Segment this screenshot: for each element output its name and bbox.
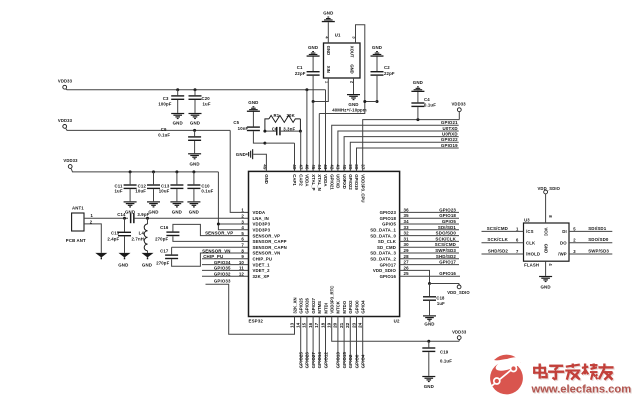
pin 20 stub (337, 317, 339, 362)
pin 17 stub (318, 317, 320, 362)
svg-text:C1: C1 (297, 65, 303, 70)
pin 2 of ANT1 (84, 219, 101, 253)
svg-text:0.1uF: 0.1uF (440, 359, 452, 364)
svg-text:C17: C17 (160, 249, 169, 254)
node rail3-C10 (192, 170, 195, 173)
svg-text:36: 36 (404, 207, 410, 212)
ground under C13 (170, 201, 183, 214)
svg-text:U0TXD: U0TXD (336, 174, 341, 188)
svg-text:GPIO2: GPIO2 (348, 354, 353, 368)
node rail2-C9 (193, 129, 196, 132)
svg-text:C4: C4 (424, 97, 430, 102)
svg-text:SCK/CLK: SCK/CLK (487, 237, 508, 242)
ESP32 left pin names (253, 210, 287, 279)
net label GPIO18 (ESP32 right) (400, 213, 459, 218)
capacitor C11 1uF (114, 172, 136, 201)
svg-text:22pF: 22pF (384, 71, 395, 76)
svg-text:14: 14 (296, 322, 301, 328)
label ESP32 (249, 318, 264, 323)
node rail3-C11 (129, 170, 132, 173)
capacitor C3 100pF (158, 90, 184, 113)
ground under U3 (539, 276, 552, 290)
svg-text:MTDO: MTDO (342, 300, 347, 313)
flash chip U3 body (524, 217, 570, 267)
svg-text:PCB ANT: PCB ANT (66, 238, 86, 243)
svg-text:MTMS: MTMS (317, 301, 322, 314)
svg-text:SCS/CMD: SCS/CMD (435, 242, 456, 247)
svg-text:GPIO18: GPIO18 (380, 216, 397, 221)
label U2 (394, 318, 400, 323)
svg-text:GPIO17: GPIO17 (380, 262, 397, 267)
svg-text:3.9pF: 3.9pF (137, 212, 149, 217)
svg-text:270pF: 270pF (155, 237, 168, 242)
svg-text:GND: GND (172, 209, 182, 214)
svg-text:12: 12 (239, 272, 245, 277)
pin 5 of U3 SDI/SD1 (569, 226, 612, 232)
net label GPIO35 (202, 266, 249, 271)
svg-text:GPIO0: GPIO0 (354, 354, 359, 368)
svg-text:GPIO34: GPIO34 (214, 260, 231, 265)
svg-text:VDDA: VDDA (305, 174, 310, 186)
svg-text:GND: GND (264, 174, 269, 184)
svg-text:SD_CLK: SD_CLK (378, 239, 397, 244)
svg-text:C6: C6 (272, 126, 278, 131)
capacitor C15 2.4pF (107, 218, 131, 253)
svg-text:2.7nH: 2.7nH (132, 236, 144, 241)
svg-text:GND: GND (349, 64, 354, 73)
net label SWP/SD3 (ESP32 right) (400, 248, 459, 253)
svg-text:GND: GND (190, 121, 200, 126)
svg-text:SD_DATA_0: SD_DATA_0 (370, 233, 396, 238)
svg-text:XIN: XIN (326, 66, 331, 73)
svg-text:10: 10 (239, 260, 245, 265)
wire rail3 drop to pins 3 and 4 (217, 172, 249, 230)
node rail3-C13 (175, 170, 178, 173)
ground above C1 (307, 45, 320, 57)
svg-text:GPIO2: GPIO2 (348, 300, 353, 314)
svg-text:GPIO25: GPIO25 (299, 297, 304, 313)
net label GPIO21 (332, 120, 459, 171)
pin 7 of U3 SHD/SD2 (482, 249, 524, 255)
svg-text:VDET_1: VDET_1 (253, 262, 271, 267)
wire node B to pin 47 (299, 131, 301, 171)
svg-text:ESP32: ESP32 (249, 318, 264, 323)
svg-text:5: 5 (241, 231, 244, 236)
svg-text:SDO/SD0: SDO/SD0 (588, 237, 609, 242)
pin 4 of U1 (324, 22, 329, 43)
ground under C11 (124, 201, 137, 214)
svg-text:21: 21 (339, 322, 344, 328)
watermark text www.elecfans.com (531, 384, 633, 397)
capacitor C19 0.1uF (422, 341, 452, 376)
svg-text:1uF: 1uF (115, 189, 123, 194)
svg-text:GPIO22: GPIO22 (441, 137, 458, 142)
svg-text:SENSOR_VP: SENSOR_VP (205, 230, 233, 235)
svg-text:U0TXD: U0TXD (443, 126, 458, 131)
pin 2 of U1 (350, 78, 355, 94)
svg-text:GND: GND (372, 45, 382, 50)
svg-text:26: 26 (404, 265, 410, 270)
ground under C12 (147, 201, 160, 214)
svg-text:VDD33: VDD33 (58, 118, 73, 123)
capacitor C13 10uF (159, 172, 184, 201)
svg-text:GND: GND (424, 321, 434, 326)
svg-text:GPIO26: GPIO26 (305, 297, 310, 313)
ground above C5 (247, 100, 260, 112)
net label GPIO33 wire to pin 13 (206, 279, 295, 335)
pin 1 of U1 (313, 78, 329, 102)
svg-text:VDD3P3: VDD3P3 (253, 228, 271, 233)
svg-text:VDD_SDIO: VDD_SDIO (447, 290, 470, 295)
svg-text:0.1uF: 0.1uF (424, 103, 436, 108)
svg-text:CHIP_PU: CHIP_PU (253, 257, 273, 262)
svg-text:GPIO5: GPIO5 (382, 222, 396, 227)
svg-text:3: 3 (241, 219, 244, 224)
svg-text:VDD33: VDD33 (451, 101, 466, 106)
svg-text:2.4pF: 2.4pF (107, 236, 119, 241)
ESP32 bottom pin names (292, 286, 365, 314)
svg-text:GND: GND (326, 46, 331, 55)
inductor L4 2.7nH (132, 218, 148, 253)
svg-text:10uF: 10uF (135, 189, 146, 194)
svg-text:C16: C16 (160, 225, 169, 230)
svg-text:GND: GND (540, 285, 550, 290)
svg-text:GND: GND (236, 152, 246, 157)
power flag VDD33 (rail 1) (58, 79, 326, 90)
svg-text:GPIO4: GPIO4 (361, 354, 366, 368)
svg-text:24: 24 (358, 322, 363, 328)
svg-text:8: 8 (241, 248, 244, 253)
svg-text:3.3nF: 3.3nF (283, 126, 295, 131)
ground under C19 (422, 376, 435, 389)
svg-text:33: 33 (404, 225, 410, 230)
ground under L4 (142, 253, 154, 268)
wire rail2 to pin 1 (230, 130, 248, 212)
net label SENSOR_VN (202, 248, 230, 253)
svg-text:DI: DI (562, 229, 567, 234)
svg-text:GPIO18: GPIO18 (439, 213, 456, 218)
node XOUT-C2 (363, 100, 378, 103)
power flag VDD33 (top right) (451, 101, 466, 119)
svg-text:22: 22 (345, 322, 350, 328)
svg-text:VDDA: VDDA (323, 174, 328, 186)
svg-text:34: 34 (404, 219, 410, 224)
svg-text:GND: GND (118, 262, 128, 267)
svg-text:GND: GND (308, 45, 318, 50)
svg-text:SD_CMD: SD_CMD (377, 245, 396, 250)
svg-text:CAP1: CAP1 (292, 174, 297, 186)
svg-text:GPIO32: GPIO32 (214, 271, 231, 276)
svg-text:1: 1 (241, 208, 244, 213)
svg-text:C2: C2 (384, 65, 390, 70)
svg-text:XTAL_P: XTAL_P (311, 174, 316, 190)
pin 3 of U1 wire to XTAL_N (319, 25, 365, 172)
svg-text:22pF: 22pF (295, 71, 306, 76)
svg-text:C5: C5 (233, 120, 239, 125)
capacitor C16 270pF (155, 224, 248, 241)
capacitor C1 22pF (295, 55, 320, 101)
node rail1-C20 (194, 88, 197, 91)
svg-text:LNA_IN: LNA_IN (253, 216, 269, 221)
svg-text:GND: GND (189, 162, 199, 167)
node L4 tap (146, 217, 149, 220)
svg-text:VDD33: VDD33 (63, 158, 78, 163)
ground under C3 (171, 113, 184, 126)
svg-text:SWP/SD3: SWP/SD3 (588, 249, 609, 254)
power flag VDD_SDIO (right) (430, 284, 471, 296)
svg-text:VDD3P3: VDD3P3 (253, 222, 271, 227)
capacitor C9 0.1uF (158, 127, 201, 153)
svg-text:40MHz+/-10ppm: 40MHz+/-10ppm (332, 108, 367, 113)
svg-text:VDD3P3_RTC: VDD3P3_RTC (330, 286, 335, 314)
net label SCS/CMD (ESP32 right) (400, 242, 459, 247)
ground under C9 (188, 153, 201, 166)
svg-text:GND: GND (189, 209, 199, 214)
svg-text:C19: C19 (440, 349, 449, 354)
ESP32 U2 body (249, 171, 400, 316)
capacitor C12 10uF (135, 172, 160, 201)
svg-text:GPIO22: GPIO22 (348, 174, 353, 190)
pin 2 of U3 SDO/SD0 (569, 237, 612, 243)
pin 18 stub (325, 317, 327, 362)
svg-text:U2: U2 (394, 318, 400, 323)
power flag VDD33 (rail 3) (63, 158, 218, 172)
net label SDO/SD0 (ESP32 right) (400, 231, 459, 236)
pin 6 of U3 SCK/CLK (482, 237, 524, 243)
capacitor C10 0.1uF (187, 172, 213, 201)
svg-text:43: 43 (323, 164, 328, 170)
wire node A to pin 48 (265, 143, 295, 171)
svg-text:16: 16 (308, 322, 313, 328)
svg-text:FLASH: FLASH (524, 262, 539, 267)
svg-text:10uF: 10uF (159, 189, 170, 194)
power flag VDD33 (bottom) (452, 329, 467, 341)
svg-text:GPIO33: GPIO33 (214, 279, 231, 284)
svg-text:18: 18 (320, 322, 325, 328)
capacitor C20 1uF (189, 90, 211, 113)
net label SHD/SD2 (ESP32 right) (400, 254, 459, 259)
net label SENSOR_VP (205, 230, 233, 235)
ground above C4 (411, 80, 424, 92)
svg-text:GPIO14: GPIO14 (317, 352, 322, 369)
pin 13 stub (294, 317, 296, 335)
svg-text:11: 11 (239, 266, 244, 271)
node C15 tap (123, 217, 126, 220)
svg-text:SCK/CLK: SCK/CLK (435, 236, 456, 241)
bottom net labels GPIO25 GPIO26 GPIO27 GPIO14 GPIO12 GPIO13 GPIO15 GPIO2 GPIO0 GPIO4 (299, 352, 366, 369)
svg-text:GPIO19: GPIO19 (441, 143, 458, 148)
svg-text:32K_XN: 32K_XN (292, 297, 297, 313)
net label SDI/SD1 (ESP32 right) (400, 225, 459, 230)
svg-text:25: 25 (404, 271, 410, 276)
svg-text:SD_DATA_2: SD_DATA_2 (370, 257, 396, 262)
svg-text:VDD_SDIO: VDD_SDIO (373, 268, 397, 273)
svg-text:GPIO27: GPIO27 (311, 352, 316, 369)
net label GPIO23 (ESP32 right) (400, 207, 459, 212)
svg-text:CAP2: CAP2 (298, 174, 303, 186)
label 40MHz+/-10ppm (332, 108, 367, 113)
ground at pad 49 (236, 149, 267, 171)
watermark text 电子发烧友 (533, 364, 615, 381)
svg-text:SENSOR_VP: SENSOR_VP (253, 233, 281, 238)
svg-text:GND: GND (544, 244, 549, 253)
svg-text:29: 29 (404, 248, 410, 253)
svg-text:0.1uF: 0.1uF (158, 132, 170, 137)
svg-text:www.elecfans.com: www.elecfans.com (531, 384, 632, 396)
svg-text:20: 20 (333, 322, 338, 328)
ESP32 left pin numbers (239, 208, 245, 277)
svg-text:30: 30 (404, 242, 410, 247)
wire rail1 drop to pin 43 (325, 90, 327, 172)
ground above C2 (371, 45, 384, 57)
pin 1 of ANT1 (84, 213, 128, 218)
svg-text:GND: GND (142, 262, 152, 267)
svg-text:GPIO23: GPIO23 (380, 210, 397, 215)
node rail1-VDDA46 (305, 88, 308, 171)
svg-text:VDET_2: VDET_2 (253, 268, 271, 273)
net label GPIO32 (202, 271, 249, 276)
svg-text:SWP/SD3: SWP/SD3 (435, 248, 456, 253)
svg-text:GND: GND (424, 384, 434, 389)
net label U0TXD (338, 126, 459, 172)
svg-text:XOUT: XOUT (349, 46, 354, 58)
svg-text:19: 19 (327, 322, 332, 328)
pin 14 stub (300, 317, 302, 362)
node A (CAP1 net) (263, 130, 266, 145)
svg-text:15: 15 (302, 322, 307, 328)
svg-text:VDD33: VDD33 (452, 329, 467, 334)
svg-text:VDD33: VDD33 (58, 79, 73, 84)
svg-text:GPIO35: GPIO35 (214, 266, 231, 271)
svg-text:GND: GND (148, 209, 158, 214)
net label GPIO5 (ESP32 right) (400, 219, 459, 224)
net label U0RXD (344, 131, 459, 171)
svg-text:GPIO4: GPIO4 (361, 300, 366, 314)
svg-text:GPIO12: GPIO12 (323, 352, 328, 369)
net label GPIO34 (202, 260, 249, 265)
watermark elecfans logo (490, 354, 523, 394)
svg-text:SENSOR_VN: SENSOR_VN (253, 251, 281, 256)
node VDD_SDIO junction (428, 282, 431, 285)
svg-text:C14: C14 (117, 212, 126, 217)
capacitor C4 0.1uF (411, 91, 436, 120)
svg-text:32K_XP: 32K_XP (253, 274, 270, 279)
antenna ANT1 (66, 206, 86, 243)
pin 23 stub (356, 317, 358, 362)
svg-text:GPIO5: GPIO5 (442, 219, 457, 224)
svg-text:9: 9 (241, 254, 244, 259)
svg-text:4: 4 (241, 225, 244, 230)
pin 16 stub (312, 317, 314, 362)
svg-text:17: 17 (314, 322, 319, 328)
svg-text:SENSOR_CAPP: SENSOR_CAPP (253, 239, 287, 244)
svg-text:SD_DATA_1: SD_DATA_1 (370, 228, 396, 233)
svg-text:VDD3P3_CPU: VDD3P3_CPU (360, 174, 365, 202)
capacitor C2 22pF (371, 55, 395, 101)
ESP32 right pin names (370, 210, 397, 279)
node B (CAP2 net) (299, 130, 302, 133)
wire VDD_SDIO pin 26 (400, 270, 430, 283)
svg-text:U3: U3 (524, 217, 530, 222)
svg-text:GPIO16: GPIO16 (439, 271, 456, 276)
svg-text:13: 13 (289, 322, 294, 328)
pin 22 stub (349, 317, 351, 362)
net label SCK/CLK (ESP32 right) (400, 236, 459, 241)
svg-text:SD_DATA_3: SD_DATA_3 (370, 251, 396, 256)
node XTAL_P (312, 100, 315, 171)
svg-text:10nF: 10nF (238, 126, 249, 131)
ESP32 bottom pin numbers (289, 322, 362, 328)
svg-text:GPIO13: GPIO13 (336, 352, 341, 369)
svg-text:VDDA: VDDA (253, 210, 266, 215)
svg-text:31: 31 (404, 236, 410, 241)
svg-text:SDO/SD0: SDO/SD0 (436, 231, 457, 236)
svg-text:ANT1: ANT1 (72, 206, 84, 211)
svg-text:GPIO17: GPIO17 (439, 260, 456, 265)
svg-text:GND: GND (413, 80, 423, 85)
net label CHIP_PU (202, 254, 249, 259)
pin 15 stub (306, 317, 308, 362)
svg-text:U1: U1 (335, 33, 341, 38)
svg-text:32: 32 (404, 231, 410, 236)
svg-text:L4: L4 (139, 230, 145, 235)
svg-text:GPIO25: GPIO25 (299, 352, 304, 369)
svg-text:GPIO27: GPIO27 (311, 297, 316, 313)
svg-text:SDI/SD1: SDI/SD1 (438, 225, 457, 230)
svg-text:C15: C15 (111, 230, 120, 235)
svg-text:GPIO26: GPIO26 (305, 352, 310, 369)
svg-text:GPIO21: GPIO21 (441, 120, 458, 125)
svg-text:U0RXD: U0RXD (442, 131, 458, 136)
pin 8 of U3 (546, 194, 553, 223)
ground under C18 (423, 315, 436, 326)
svg-text:MTDI: MTDI (323, 303, 328, 314)
pin 21 stub (343, 317, 345, 362)
node C19 tap (427, 340, 430, 343)
capacitor C6 3.3nF (265, 126, 301, 135)
svg-text:1uF: 1uF (203, 101, 211, 106)
svg-text:XTAL_N: XTAL_N (317, 174, 322, 190)
svg-text:27: 27 (404, 260, 410, 265)
svg-text:VCC: VCC (544, 228, 549, 237)
ground under C10 (187, 201, 200, 214)
svg-text:GND: GND (173, 121, 183, 126)
ground under C20 (189, 113, 202, 126)
pin 4 of U3 (546, 261, 553, 276)
svg-text:SHD/SD2: SHD/SD2 (436, 254, 456, 259)
svg-text:/HOLD: /HOLD (526, 252, 540, 257)
pin 24 stub (362, 317, 364, 362)
ground under U1 pin 2 (347, 94, 360, 107)
net label GPIO17 (ESP32 right) (400, 260, 459, 265)
svg-text:DO: DO (560, 240, 567, 245)
wire VDD3P3_RTC pin 19 to bottom rail (332, 317, 460, 342)
svg-text:GND: GND (348, 102, 358, 107)
power flag VDD33 (rail 2) (58, 118, 230, 131)
crystal oscillator U1 40MHz (324, 33, 361, 79)
svg-text:GPIO19: GPIO19 (354, 174, 359, 190)
svg-text:GPIO16: GPIO16 (380, 274, 397, 279)
ground under ANT1 pin2 (95, 253, 107, 259)
svg-text:GPIO0: GPIO0 (354, 300, 359, 314)
svg-text:GND: GND (323, 10, 333, 15)
svg-text:GND: GND (248, 100, 258, 105)
resistor R1 20K (265, 113, 301, 131)
net label GPIO19 (357, 143, 459, 172)
svg-text:46: 46 (305, 164, 310, 170)
capacitor C18 1uF (423, 284, 445, 316)
svg-text:35: 35 (404, 213, 410, 218)
